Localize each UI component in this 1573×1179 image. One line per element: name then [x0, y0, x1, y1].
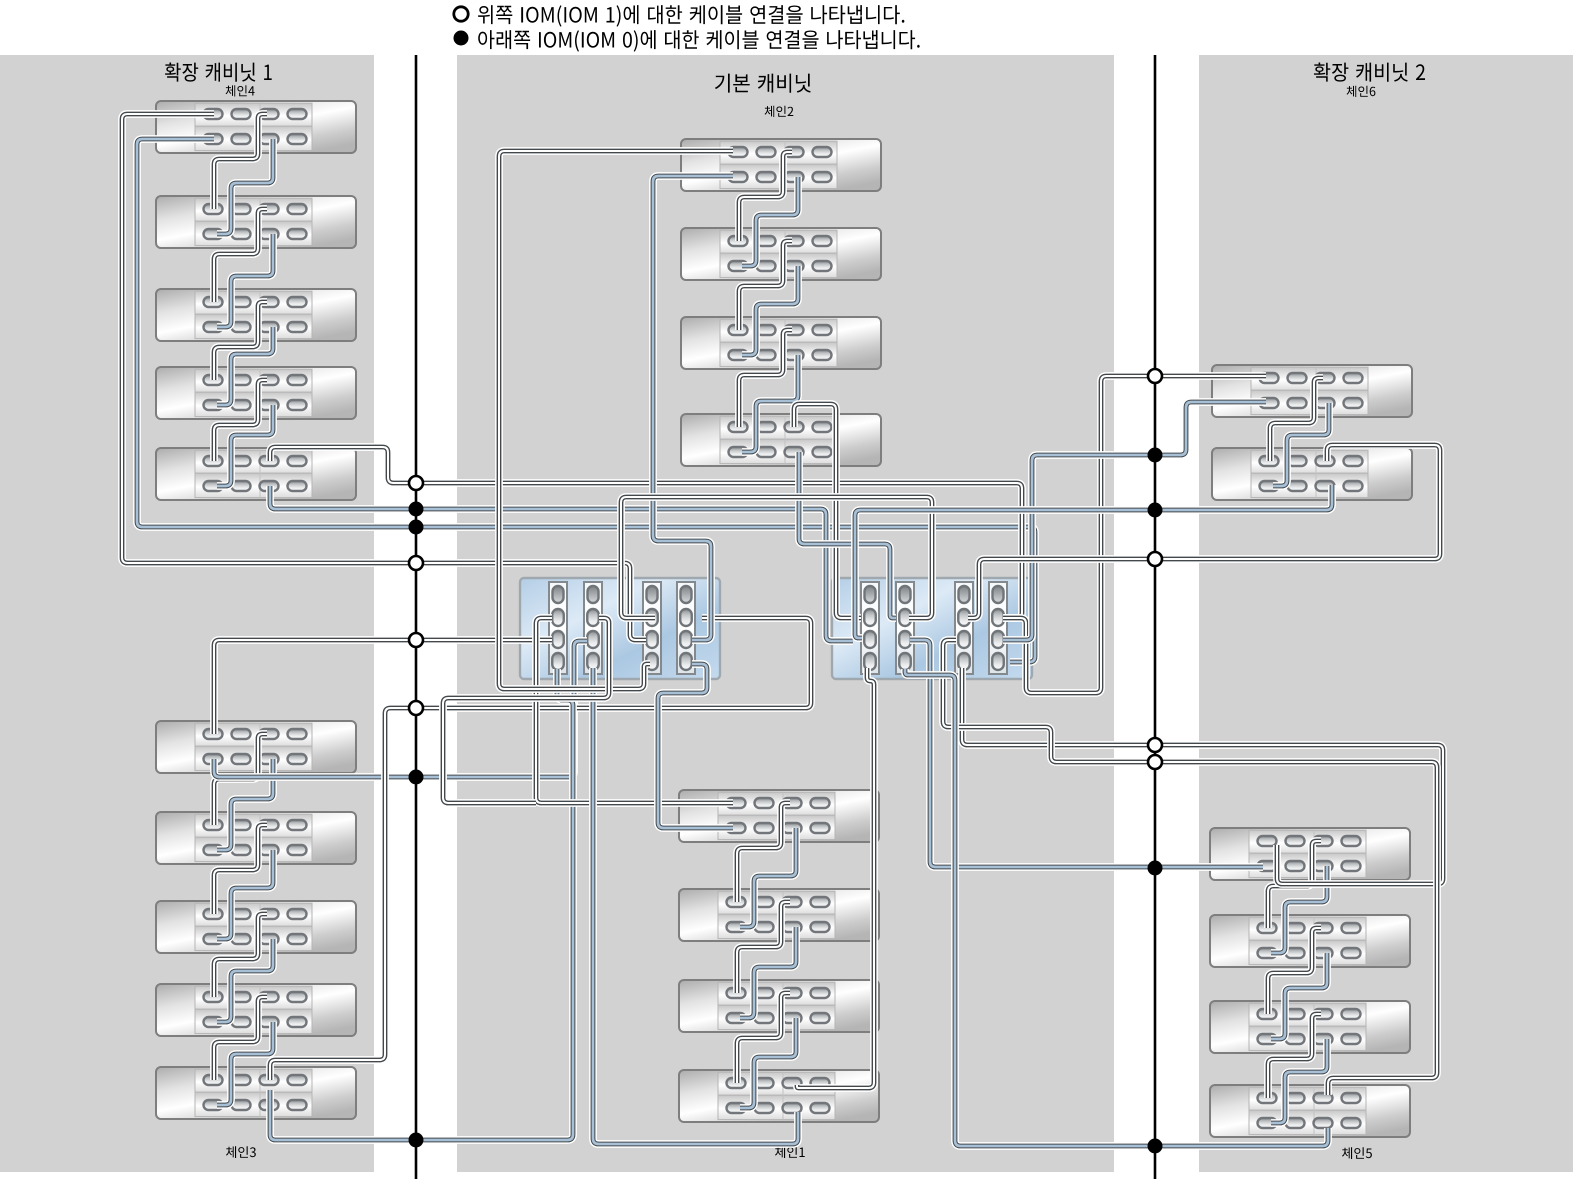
- node right-1146 (IOM0 junction, filled): [1148, 1139, 1163, 1154]
- wire chain3 shelf1 IOM0 trunk to controller1 s2P2: [214, 641, 587, 777]
- disk shelf chain1-1: [679, 790, 879, 842]
- wire chain3 shelf5 IOM0 trunk to controller1 s1P3: [270, 669, 573, 1140]
- disk shelf chain2-2: [681, 228, 881, 280]
- wire chain4 IOM1 shelf3-shelf4: [214, 302, 267, 380]
- wire chain2 IOM1 shelf2-shelf3: [739, 241, 792, 330]
- wire chain4 IOM1 shelf2-shelf3: [214, 209, 267, 302]
- disk shelf chain3-1: [156, 721, 356, 773]
- wire controller1 s2P1 under-run west: [443, 618, 609, 803]
- wire chain3 shelf5 IOM1 trunk to controller1 s4P1: [270, 618, 811, 1080]
- disk shelf chain2-3: [681, 317, 881, 369]
- wire chain1 IOM0 shelf3-shelf4: [740, 1018, 796, 1108]
- wire chain3 IOM0 shelf1-shelf2: [217, 759, 273, 850]
- wire controller2 s1P3 to chain1 shelf4 IOM1: [797, 668, 874, 1088]
- label chain 5: [1342, 1147, 1372, 1159]
- label chain 4: [226, 85, 255, 96]
- disk shelf chain1-2: [679, 889, 879, 941]
- wire controller2 s4P2 riser to chain6 shelf1 IOM0: [1003, 402, 1266, 640]
- wire chain1 IOM1 shelf3-shelf4: [737, 993, 790, 1083]
- wire chain2 shelf4 IOM0 trunk to controller2 s2P1: [799, 452, 896, 618]
- disk shelf chain4-2: [156, 196, 356, 248]
- wire chain1 IOM0 shelf1-shelf2: [740, 828, 796, 927]
- wire chain6 shelf2 IOM1 trunk to controller2 s3P1: [968, 445, 1440, 618]
- disk shelf chain6-1: [1212, 365, 1412, 417]
- disk shelf chain3-3: [156, 901, 356, 953]
- wire chain4 shelf5 IOM0 trunk to controller2 s1P2: [270, 486, 853, 641]
- disk shelf chain1-3: [679, 980, 879, 1032]
- wire chain3 IOM0 shelf2-shelf3: [217, 850, 273, 939]
- disk shelf chain5-3: [1210, 1001, 1410, 1053]
- wire chain6 IOM1 shelf1-shelf2: [1270, 378, 1323, 461]
- wire controller1 s1P1 to chain1 shelf1 IOM1: [536, 618, 733, 803]
- wire controller2 s4P1 to chain6 shelf1 IOM1: [1003, 376, 1266, 693]
- node right-559 (IOM1 junction, open): [1148, 552, 1162, 566]
- disk shelf chain2-1: [681, 139, 881, 191]
- cabinet column: expansion cabinet 2 (right): [1199, 55, 1573, 1172]
- wire controller2 s2P3 to chain5 shelf4 IOM0: [905, 669, 1328, 1146]
- disk shelf chain3-5: [156, 1067, 356, 1119]
- wire chain3 shelf1 IOM1 trunk to controller1 s1P2: [214, 640, 552, 734]
- node left-708 (IOM1 junction, open): [409, 701, 423, 715]
- wire chain4 IOM1 shelf4-shelf5: [214, 380, 267, 461]
- label chain 1: [775, 1146, 805, 1158]
- label legend line 2: [478, 30, 920, 51]
- wire chain4 shelf1 IOM1 trunk to controller1 s3P2: [122, 114, 646, 640]
- node right-455 (IOM0 junction, filled): [1148, 448, 1163, 463]
- wire chain5 IOM0 shelf2-shelf3: [1271, 953, 1327, 1039]
- node left-777 (IOM0 junction, filled): [409, 770, 424, 785]
- wire chain2 IOM1 shelf3-shelf4: [739, 330, 792, 427]
- label title expansion cabinet 2: [1314, 63, 1425, 82]
- wire chain4 IOM1 shelf1-shelf2: [214, 114, 267, 209]
- wire chain3 IOM0 shelf4-shelf5: [217, 1022, 273, 1105]
- wire chain3 IOM0 shelf3-shelf4: [217, 939, 273, 1022]
- wire chain2 IOM1 shelf1-shelf2: [739, 152, 792, 241]
- label chain 6: [1347, 86, 1376, 97]
- node right-376 (IOM1 junction, open): [1148, 369, 1162, 383]
- wire chain4 IOM0 shelf2-shelf3: [217, 234, 273, 327]
- wire chain6 IOM0 shelf1-shelf2: [1273, 403, 1329, 486]
- wire chain2 shelf1 IOM1 trunk to controller1 s3P3: [499, 151, 733, 689]
- disk shelf chain5-4: [1210, 1085, 1410, 1137]
- wire chain1 IOM1 shelf2-shelf3: [737, 902, 790, 993]
- node left-527 (IOM0 junction, filled): [409, 520, 424, 535]
- wire chain6 shelf2 IOM0 trunk to controller2 s1P2 upper: [855, 485, 1332, 638]
- wire controller2 s3P3 to chain5 shelf1 IOM1: [962, 668, 1443, 884]
- wire chain2 IOM0 shelf1-shelf2: [742, 177, 798, 266]
- cabinet column: base cabinet (center): [457, 55, 1114, 1172]
- cabinet boundary line (right): [1154, 55, 1157, 1179]
- wire chain2 shelf1 IOM0 trunk to controller1 s4P2: [653, 176, 733, 640]
- wire controller2 s2P2 to chain5 shelf1 IOM0: [910, 640, 1263, 867]
- wire chain3 IOM1 shelf4-shelf5: [214, 997, 267, 1080]
- wire chain4 IOM0 shelf3-shelf4: [217, 327, 273, 405]
- node right-510 (IOM0 junction, filled): [1148, 503, 1163, 518]
- wire chain4 IOM0 shelf4-shelf5: [217, 405, 273, 486]
- wire chain3 IOM1 shelf2-shelf3: [214, 825, 267, 914]
- wire chain5 IOM0 shelf3-shelf4: [1271, 1039, 1327, 1123]
- disk shelf chain4-1: [156, 101, 356, 153]
- disk shelf chain3-4: [156, 984, 356, 1036]
- controller head 1: [520, 578, 720, 679]
- label title base cabinet: [715, 74, 811, 93]
- wire controller1 s4P3 to chain1 shelf1 IOM0: [658, 664, 733, 828]
- wire controller1 s2P3 to chain1 shelf4 IOM0: [593, 668, 798, 1144]
- node left-563 (IOM1 junction, open): [409, 556, 423, 570]
- wire chain5 IOM1 shelf3-shelf4: [1268, 1014, 1321, 1098]
- disk shelf chain3-2: [156, 812, 356, 864]
- wire chain2 shelf4 IOM1 trunk to controller2 s1P1: [794, 404, 861, 618]
- node left-640 (IOM1 junction, open): [409, 633, 423, 647]
- disk shelf chain2-4: [681, 414, 881, 466]
- disk shelf chain4-5: [156, 448, 356, 500]
- node right-745 (IOM1 junction, open): [1148, 738, 1162, 752]
- node right-868 (IOM0 junction, filled): [1148, 861, 1163, 876]
- wire chain4 shelf1 IOM0 trunk to controller2 s4P3: [137, 139, 1035, 662]
- wire chain3 IOM1 shelf3-shelf4: [214, 914, 267, 997]
- wire chain3 IOM1 shelf1-shelf2: [214, 734, 267, 825]
- wire chain2 IOM0 shelf3-shelf4: [742, 355, 798, 452]
- label chain 2: [765, 106, 794, 117]
- wire controller1 s3P1 trunk to controller2 s2P1: [621, 497, 932, 618]
- node left-509 (IOM0 junction, filled): [409, 502, 424, 517]
- node right-762 (IOM1 junction, open): [1148, 755, 1162, 769]
- disk shelf chain4-3: [156, 289, 356, 341]
- cabinet boundary line (left): [415, 55, 418, 1179]
- wire chain5 IOM0 shelf1-shelf2: [1271, 866, 1327, 953]
- disk shelf chain1-4: [679, 1070, 879, 1122]
- wire chain1 IOM1 shelf1-shelf2: [737, 803, 790, 902]
- wire chain1 IOM0 shelf2-shelf3: [740, 927, 796, 1018]
- controller head 2: [832, 578, 1032, 679]
- wire chain4 shelf5 IOM1 trunk to controller2 s4P1: [270, 447, 1022, 618]
- legend symbol: open circle (IOM 1): [454, 7, 468, 21]
- wire chain5 IOM1 shelf2-shelf3: [1268, 928, 1321, 1014]
- wire chain2 IOM0 shelf2-shelf3: [742, 266, 798, 355]
- label legend line 1: [478, 5, 904, 27]
- node left-1140 (IOM0 junction, filled): [409, 1133, 424, 1148]
- disk shelf chain6-2: [1212, 448, 1412, 500]
- disk shelf chain4-4: [156, 367, 356, 419]
- wire controller2 s3P2 to chain5 shelf4 IOM1: [943, 640, 1437, 1095]
- label chain 3: [226, 1146, 256, 1158]
- disk shelf chain5-1: [1210, 828, 1410, 880]
- node left-483 (IOM1 junction, open): [409, 476, 423, 490]
- wire chain5 IOM1 shelf1-shelf2: [1268, 841, 1321, 928]
- wire chain4 IOM0 shelf1-shelf2: [217, 139, 273, 234]
- cabinet column: expansion cabinet 1 (left): [0, 55, 374, 1172]
- legend symbol: filled circle (IOM 0): [454, 31, 469, 46]
- label title expansion cabinet 1: [165, 63, 272, 82]
- disk shelf chain5-2: [1210, 915, 1410, 967]
